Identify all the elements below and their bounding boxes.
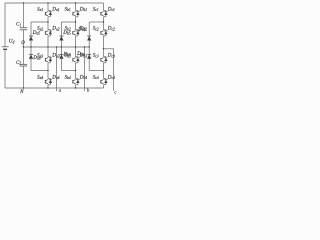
- wire: capacitor rail upper: [23, 3, 25, 28]
- svg-text:C2: C2: [16, 61, 21, 66]
- wire: phase c output tap: [104, 48, 114, 50]
- switch S_c4 with antiparallel diode D_c4: [101, 79, 108, 85]
- svg-text:Ud: Ud: [9, 39, 15, 45]
- wire: left source branch lower: [4, 50, 6, 88]
- switch S_c3 with antiparallel diode D_c3: [101, 57, 108, 63]
- svg-text:Dc1: Dc1: [107, 7, 115, 13]
- switch S_a2 with antiparallel diode D_a2: [45, 30, 52, 36]
- clamp diode D_c5: [87, 36, 91, 41]
- wire: phase a output drop: [56, 47, 58, 91]
- svg-text:c: c: [114, 89, 116, 94]
- svg-text:O: O: [21, 41, 25, 46]
- svg-text:Db6: Db6: [63, 51, 72, 57]
- wire: clamp chain phase c: [88, 22, 90, 71]
- clamp diode D_b6: [59, 54, 63, 59]
- svg-text:Da6: Da6: [32, 55, 41, 61]
- capacitor C1: [20, 28, 27, 30]
- wire: phase c leg: [103, 3, 105, 88]
- switch S_c2 with antiparallel diode D_c2: [101, 30, 108, 36]
- clamp diode D_a5: [29, 36, 33, 41]
- wire: clamp top connector phase a: [31, 21, 48, 23]
- svg-text:Sb1: Sb1: [65, 7, 71, 13]
- wire: clamp top connector phase b: [61, 21, 75, 23]
- svg-text:Sa4: Sa4: [37, 75, 43, 81]
- svg-text:Dc5: Dc5: [77, 26, 85, 32]
- wire: clamp chain phase b: [60, 22, 62, 71]
- wire: neutral bus O: [24, 46, 90, 48]
- switch S_b1 with antiparallel diode D_b1: [73, 11, 80, 17]
- svg-text:Dc2: Dc2: [107, 26, 115, 32]
- svg-text:Db1: Db1: [79, 7, 88, 13]
- svg-text:Db4: Db4: [79, 75, 88, 81]
- wire: clamp bottom connector phase c: [89, 70, 103, 72]
- svg-text:Da5: Da5: [32, 30, 41, 36]
- svg-text:Da4: Da4: [51, 75, 60, 81]
- svg-text:Sc1: Sc1: [93, 7, 99, 13]
- svg-text:Sc4: Sc4: [93, 75, 99, 81]
- svg-text:Sb4: Sb4: [65, 75, 71, 81]
- wire: clamp bottom connector phase b: [61, 70, 75, 72]
- svg-text:C1: C1: [16, 23, 21, 28]
- switch S_b4 with antiparallel diode D_b4: [73, 79, 80, 85]
- wire: clamp bottom connector phase a: [31, 70, 48, 72]
- wire: capacitor rail lower: [23, 66, 25, 88]
- switch S_c1 with antiparallel diode D_c1: [101, 11, 108, 17]
- clamp diode D_a6: [29, 54, 33, 59]
- svg-text:Sc3: Sc3: [93, 53, 99, 59]
- wire: capacitor rail middle: [23, 30, 25, 65]
- switch S_a1 with antiparallel diode D_a1: [45, 11, 52, 17]
- wire: phase c output drop: [113, 49, 115, 91]
- switch S_b3 with antiparallel diode D_b3: [73, 57, 80, 63]
- svg-text:Da1: Da1: [51, 7, 60, 13]
- wire: clamp top connector phase c: [89, 21, 103, 23]
- wire: phase b leg: [75, 3, 77, 88]
- wire: phase a leg: [47, 3, 49, 88]
- wire: bottom DC rail N: [5, 87, 104, 89]
- svg-text:Da3: Da3: [51, 53, 60, 59]
- svg-text:Da2: Da2: [51, 26, 60, 32]
- svg-text:Sa1: Sa1: [37, 7, 43, 13]
- switch S_a4 with antiparallel diode D_a4: [45, 79, 52, 85]
- DC source U_d battery: [2, 47, 9, 50]
- switch S_b2 with antiparallel diode D_b2: [73, 30, 80, 36]
- capacitor C2: [20, 64, 27, 66]
- svg-text:N: N: [19, 90, 24, 94]
- clamp diode D_b5: [59, 36, 63, 41]
- wire: clamp chain phase a: [30, 22, 32, 71]
- wire: top DC rail P: [5, 2, 104, 4]
- svg-text:Sc2: Sc2: [93, 26, 99, 32]
- wire: phase b output drop: [84, 47, 86, 91]
- clamp diode D_c6: [87, 54, 91, 59]
- svg-text:Db5: Db5: [62, 30, 71, 36]
- switch S_a3 with antiparallel diode D_a3: [45, 57, 52, 63]
- wire: left source branch upper: [4, 3, 6, 47]
- svg-text:Dc6: Dc6: [76, 51, 84, 57]
- junction dots: [23, 2, 104, 88]
